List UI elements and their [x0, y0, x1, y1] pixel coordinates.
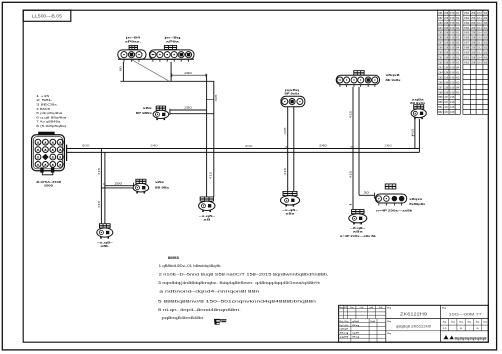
svg-text:x8x: x8x [143, 106, 153, 110]
svg-text:158: 158 [444, 57, 449, 60]
svg-text:258: 258 [471, 62, 476, 65]
svg-text:B80: B80 [438, 101, 443, 104]
top connector V1 3-pin body [281, 96, 305, 107]
svg-text:158: 158 [444, 12, 449, 15]
junction tick [349, 204, 351, 206]
svg-text:158: 158 [444, 66, 449, 69]
top connector V1 3-pin label [283, 88, 300, 96]
svg-text:Z82: Z82 [438, 62, 443, 65]
svg-text:18.4: 18.4 [477, 57, 482, 60]
svg-text:x8x: x8x [155, 180, 165, 184]
branch upper lead [105, 185, 134, 187]
svg-text:Z89: Z89 [438, 52, 443, 55]
svg-text:18.2: 18.2 [477, 47, 482, 50]
svg-text:18.0: 18.0 [477, 12, 482, 15]
svg-text:X86: X86 [464, 37, 470, 40]
svg-text:158: 158 [444, 76, 449, 79]
svg-text:8P 9x0x: 8P 9x0x [285, 92, 301, 96]
svg-text:200: 200 [184, 106, 192, 110]
svg-text:1.58: 1.58 [450, 101, 455, 104]
title block right: scale grid [440, 319, 488, 331]
connector J1 16-pin body [32, 135, 65, 171]
svg-text:Z84: Z84 [438, 71, 443, 74]
svg-text:pq8nq84bn848n: pq8nq84bn848n [162, 316, 204, 320]
svg-text:18.4: 18.4 [477, 32, 482, 35]
svg-text:258: 258 [471, 57, 476, 60]
svg-text:ZK6122H9: ZK6122H9 [400, 311, 428, 316]
inline connector lower lead [170, 113, 214, 115]
svg-text:415: 415 [350, 170, 353, 178]
svg-text:158: 158 [444, 81, 449, 84]
connector T2 6-pin label [162, 35, 181, 43]
svg-text:Z84: Z84 [438, 27, 443, 30]
svg-text:2 n10E–D–5nnd 8uq8 S58 na0C/T: 2 n10E–D–5nnd 8uq8 S58 na0C/T 158–2015 8… [159, 272, 329, 276]
svg-text:18.3: 18.3 [477, 27, 482, 30]
svg-text:0.58: 0.58 [450, 32, 455, 35]
svg-text:0.58: 0.58 [450, 27, 455, 30]
svg-text:x8: x8 [203, 218, 211, 222]
svg-text:Z86: Z86 [438, 81, 443, 84]
drawing number box top-left [23, 10, 71, 21]
svg-text:Z85: Z85 [438, 32, 443, 35]
svg-text:X82: X82 [464, 17, 470, 20]
svg-text:0.58: 0.58 [450, 91, 455, 94]
svg-text:415: 415 [350, 110, 353, 118]
svg-text:0.58: 0.58 [450, 76, 455, 79]
svg-text:Z83: Z83 [438, 66, 443, 69]
wire from T1 down [122, 62, 124, 82]
svg-text:415: 415 [284, 167, 287, 175]
svg-text:158: 158 [444, 37, 449, 40]
title block left revision grid [339, 305, 386, 342]
svg-text:89 9x0x: 89 9x0x [410, 101, 426, 105]
svg-text:50: 50 [364, 191, 370, 195]
svg-text:258: 258 [471, 47, 476, 50]
svg-text:Z86: Z86 [438, 37, 443, 40]
svg-text:200: 200 [184, 71, 192, 75]
svg-text:Z81: Z81 [438, 57, 443, 60]
title block right: drawing number [440, 307, 488, 318]
trunk end wire up right [418, 119, 420, 152]
svg-text:8E 9x8x: 8E 9x8x [386, 78, 402, 82]
diagonal crossover wire [131, 60, 168, 81]
title block outline [339, 305, 489, 342]
bottom connector X6 label [350, 226, 366, 234]
svg-text:8q 8q: 8q 8q [339, 321, 349, 323]
svg-text:a ndbnond–dqnd4–nnnqon8l 88n: a ndbnond–dqnd4–nnnqon8l 88n [159, 289, 259, 293]
company logo mark [444, 335, 454, 339]
connector J1 label [36, 180, 61, 188]
svg-text:415: 415 [284, 126, 287, 134]
svg-text:LL500—B.05: LL500—B.05 [32, 14, 63, 19]
junction tick pair3 trunk [285, 146, 287, 148]
svg-text:415: 415 [98, 200, 101, 208]
left drop wire 2 [104, 152, 106, 223]
branch bracket [133, 183, 135, 190]
svg-text:X88: X88 [464, 47, 470, 50]
svg-text:18.2: 18.2 [477, 22, 482, 25]
connector H1 side label [409, 197, 426, 206]
connector H1 pins [379, 203, 402, 206]
svg-text:415: 415 [210, 171, 213, 179]
svg-text:0.58: 0.58 [450, 47, 455, 50]
svg-text:0.58: 0.58 [450, 12, 455, 15]
connector J1 bottom latch [40, 167, 54, 174]
svg-text:0.58: 0.58 [450, 81, 455, 84]
svg-text:X81: X81 [464, 12, 470, 15]
svg-text:18.3: 18.3 [477, 52, 482, 55]
svg-text:B81: B81 [438, 106, 443, 109]
svg-text:8 (5.lb8p8q8a): 8 (5.lb8p8q8a) [36, 124, 66, 128]
connector T1 3-pin tab [129, 45, 138, 50]
svg-text:158: 158 [444, 22, 449, 25]
svg-text:0.58: 0.58 [450, 42, 455, 45]
title block right: scale text [442, 321, 488, 330]
svg-text:1.58: 1.58 [450, 106, 455, 109]
svg-text:B82: B82 [438, 111, 443, 114]
svg-text:n=4P 2x0x—x8x 8k: n=4P 2x0x—x8x 8k [340, 234, 376, 238]
top horizontal wire run [120, 80, 214, 82]
svg-text:1000: 1000 [44, 184, 53, 188]
svg-text:0.58: 0.58 [450, 57, 455, 60]
svg-text:Z87: Z87 [438, 42, 443, 45]
svg-text:0.58: 0.58 [450, 86, 455, 89]
svg-text:0.58: 0.58 [450, 66, 455, 69]
junction tick branch1 [103, 183, 105, 185]
svg-text:200: 200 [115, 181, 123, 185]
svg-text:X83: X83 [464, 22, 470, 25]
title block left tiny text [339, 307, 383, 339]
svg-text:xP9x: xP9x [166, 40, 180, 44]
svg-text:8P 980x: 8P 980x [136, 111, 153, 115]
connector T2 pins [153, 59, 189, 61]
V2 drop wire right [358, 87, 360, 195]
svg-text:X87: X87 [464, 42, 470, 45]
trunk upper line [67, 148, 420, 150]
svg-text:8q8 q8q: 8q8 q8q [339, 325, 349, 327]
svg-text:258: 258 [471, 32, 476, 35]
wire list table right [463, 10, 488, 114]
svg-text:258: 258 [471, 12, 476, 15]
lead bracket of inline connector [169, 109, 171, 115]
svg-text:Z88: Z88 [438, 91, 443, 94]
svg-text:415: 415 [411, 127, 414, 135]
svg-text:5 nLqn. 4np4–8nnd48nqn88m.: 5 nLqn. 4np4–8nnd48nqn88m. [158, 308, 241, 312]
svg-text:415: 415 [215, 93, 218, 101]
svg-text:158: 158 [444, 17, 449, 20]
branch connector X2 [133, 179, 149, 194]
svg-text:xP9xx.: xP9xx. [125, 40, 141, 44]
wire from T2 down [170, 62, 172, 82]
svg-text:260: 260 [384, 144, 392, 148]
label tick [412, 135, 415, 137]
bottom-left connector X3 [97, 223, 113, 238]
svg-text:158: 158 [444, 86, 449, 89]
connector T1 3-pin label [124, 35, 141, 43]
svg-text:Z85: Z85 [438, 76, 443, 79]
svg-text:x8x: x8x [286, 212, 296, 216]
svg-text:10G—00M.77: 10G—00M.77 [449, 311, 483, 316]
svg-text:B88: B88 [438, 96, 443, 99]
junction tick pair4 trunk [351, 146, 353, 148]
svg-text:158: 158 [444, 32, 449, 35]
connector H1 4-pin tab [385, 184, 397, 190]
svg-text:q8q8q8 ZK6122H9: q8q8q8 ZK6122H9 [396, 324, 431, 328]
center connector X4 [199, 197, 215, 213]
svg-text:18.0: 18.0 [477, 37, 482, 40]
svg-text:X82: X82 [464, 62, 470, 65]
top connector V2 6-pin body [336, 75, 379, 84]
wire list table right text [464, 12, 488, 65]
svg-text:Z83: Z83 [438, 22, 443, 25]
bottom connector X6 [349, 209, 367, 224]
baseline under top connectors [118, 58, 194, 60]
note marking symbol [214, 319, 227, 325]
wire list table left [438, 10, 461, 114]
V1 drop wire left [287, 107, 289, 191]
svg-text:18.1: 18.1 [477, 17, 482, 20]
svg-text:18.1: 18.1 [477, 42, 482, 45]
inline connector X1 [153, 106, 169, 121]
V1 drop wire right [293, 107, 295, 191]
svg-text:0.58: 0.58 [450, 62, 455, 65]
svg-text:X85: X85 [464, 32, 470, 35]
svg-text:Z82: Z82 [438, 17, 443, 20]
svg-text:500: 500 [82, 144, 90, 148]
trunk lower line [67, 151, 420, 153]
trunk end connector X7 label [410, 98, 426, 105]
svg-text:Z81: Z81 [438, 12, 443, 15]
svg-text:0.58: 0.58 [450, 71, 455, 74]
dimension line 200 [172, 74, 206, 78]
svg-text:258: 258 [471, 27, 476, 30]
svg-text:X89: X89 [464, 52, 470, 55]
top connector V2 6-pin tab [353, 70, 364, 75]
pin signal list text block [36, 94, 67, 128]
wire list table left text [438, 12, 460, 114]
svg-text:258: 258 [471, 42, 476, 45]
svg-text:n=4P 250x—xx8k: n=4P 250x—xx8k [376, 209, 412, 213]
inline connector upper lead [170, 109, 207, 111]
connector V2 pins [340, 85, 375, 87]
svg-text:x8x: x8x [353, 229, 364, 233]
svg-text:18.0: 18.0 [477, 62, 482, 65]
left drop wire 1 [100, 149, 102, 224]
svg-text:0.58: 0.58 [450, 37, 455, 40]
connector T2 6-pin body [149, 50, 194, 59]
branch connector X2 label [155, 180, 170, 189]
svg-text:8M¥8: 8M¥8 [168, 256, 179, 260]
svg-text:158: 158 [444, 71, 449, 74]
svg-text:x8qx8: x8qx8 [386, 73, 401, 77]
connector J1 top latch bar [38, 132, 55, 135]
svg-text:158: 158 [444, 52, 449, 55]
svg-text:1.58: 1.58 [450, 96, 455, 99]
svg-text:158: 158 [444, 42, 449, 45]
connector V2 label [386, 73, 402, 82]
trunk bracket at J1 [66, 145, 68, 161]
svg-text:3 nqn8dq(4n88dq8mqbc. 8dq4q8b5: 3 nqn8dq(4n88dq8mqbc. 8dq4q8b5nvn. q48nq… [158, 281, 320, 285]
inline connector X1 label [136, 106, 153, 115]
junction stub [207, 99, 214, 101]
svg-text:415: 415 [98, 167, 101, 175]
wire drop B to trunk [213, 81, 215, 196]
title block middle: model name [386, 307, 441, 334]
branch lead to H1 [359, 194, 375, 196]
svg-text:0.58: 0.58 [450, 22, 455, 25]
svg-text:Z87: Z87 [438, 86, 443, 89]
svg-text:1 qB8#dL5Dv–01 b8w#dq48q4b.: 1 qB8#dL5Dv–01 b8w#dq48q4b. [159, 264, 222, 268]
svg-text:240: 240 [319, 144, 327, 148]
svg-text:8q8q8q8q8q8q8: 8q8q8q8q8q8q8 [455, 337, 487, 341]
svg-text:1.58: 1.58 [450, 111, 455, 114]
svg-text:200: 200 [245, 144, 253, 148]
bottom-left connector X3 label [97, 241, 114, 249]
bottom connector X5 label [282, 208, 299, 216]
wire drop A to trunk [206, 74, 208, 197]
svg-text:258: 258 [471, 22, 476, 25]
connector T2 6-pin tab [164, 45, 177, 50]
center connector X4 label [199, 214, 216, 222]
svg-text:158: 158 [444, 62, 449, 65]
svg-text:X84: X84 [464, 27, 470, 30]
svg-text:X81: X81 [464, 57, 470, 60]
svg-text:x8L: x8L [100, 244, 109, 248]
svg-text:258: 258 [471, 17, 476, 20]
svg-text:0.58: 0.58 [450, 52, 455, 55]
svg-text:258: 258 [471, 37, 476, 40]
connector H1 4-pin body [375, 194, 406, 203]
svg-text:x8qxx: x8qxx [409, 197, 423, 201]
svg-text:88 98x: 88 98x [155, 186, 170, 190]
V2 drop wire left [352, 87, 354, 209]
svg-text:158: 158 [444, 27, 449, 30]
bottom connector X5 [280, 191, 299, 207]
connector J1 terminals [35, 139, 63, 167]
svg-text:258: 258 [471, 52, 476, 55]
svg-text:5 888bq88nv//8 150–501cnqnvknn: 5 888bq88nv//8 150–501cnqnvknnd4q84888bb… [158, 299, 316, 303]
trunk end connector X7 [411, 104, 426, 119]
svg-text:158: 158 [444, 91, 449, 94]
svg-text:8x89p8x: 8x89p8x [409, 202, 426, 206]
svg-text:0.58: 0.58 [450, 17, 455, 20]
trunk end wire up left [414, 119, 416, 149]
svg-text:158: 158 [444, 47, 449, 50]
connector T1 3-pin body [118, 50, 146, 59]
connector T1 pins [124, 59, 139, 61]
branch bracket at H1 [374, 193, 376, 199]
connector J1 keying diamond [42, 154, 49, 161]
svg-text:Z88: Z88 [438, 47, 443, 50]
svg-text:240: 240 [150, 144, 158, 148]
branch lower lead [101, 187, 133, 189]
